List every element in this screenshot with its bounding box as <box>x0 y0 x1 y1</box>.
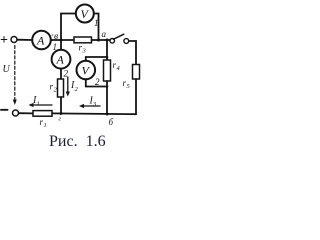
current arrow I2 <box>67 77 69 93</box>
resistor r2 <box>58 79 64 97</box>
wire V1 down to node a <box>94 14 99 41</box>
wire r2 to bottom rail <box>60 97 62 114</box>
svg-text:4: 4 <box>117 65 121 72</box>
label 2 (A2 subscript) <box>64 69 69 79</box>
bottom rail wire <box>52 112 136 115</box>
voltmeter V2 tap top <box>86 57 107 61</box>
resistor r1 <box>33 111 52 117</box>
junction dot node б <box>106 113 109 116</box>
label 1 (V1 subscript) <box>94 18 99 28</box>
node label a <box>102 29 107 39</box>
svg-text:A: A <box>56 53 65 67</box>
junction dot r4 branch <box>106 39 109 42</box>
wire r5 to bottom rail <box>135 79 137 114</box>
svg-text:V: V <box>81 7 90 21</box>
svg-text:A: A <box>36 34 45 48</box>
wire A2 to r2 <box>60 69 62 79</box>
svg-text:V: V <box>82 64 91 78</box>
svg-text:б: б <box>109 117 114 127</box>
svg-text:U: U <box>3 64 11 75</box>
wire minus terminal to r1 <box>19 112 33 114</box>
svg-text:Рис. 1.6: Рис. 1.6 <box>49 133 106 150</box>
terminal minus (minus sign) <box>1 109 8 111</box>
terminal + circle <box>11 37 17 43</box>
current arrow I1 <box>32 104 53 106</box>
svg-text:3: 3 <box>92 101 97 108</box>
wire A1 to r3 <box>51 39 74 41</box>
switch contact 2 <box>124 39 129 44</box>
ammeter A2 <box>60 40 62 50</box>
node label г <box>59 116 62 123</box>
r4 branch wire top <box>106 40 108 60</box>
voltage arrow U (dashed) <box>14 46 16 102</box>
svg-text:г: г <box>59 116 62 123</box>
current arrow I3 <box>82 105 100 107</box>
junction dot bottom of r2 branch <box>60 112 63 115</box>
svg-text:+: + <box>0 33 8 48</box>
voltmeter V1 <box>76 5 94 23</box>
terminal minus circle <box>13 110 19 116</box>
svg-text:1: 1 <box>37 101 40 108</box>
voltmeter V2 <box>77 61 96 80</box>
terminal + (plus sign) <box>0 33 8 48</box>
node в junction dot <box>60 39 63 42</box>
svg-text:a: a <box>102 29 107 39</box>
wire r3 to switch <box>92 39 111 41</box>
svg-text:3: 3 <box>82 48 87 55</box>
switch contact 1 <box>110 39 115 44</box>
label 1 (A1 subscript) <box>53 42 58 52</box>
switch blade <box>114 34 124 39</box>
svg-text:2: 2 <box>75 86 79 93</box>
node label в <box>51 32 59 42</box>
svg-text:1: 1 <box>44 122 47 129</box>
ammeter A1 <box>32 31 51 50</box>
resistor r4 <box>104 60 111 81</box>
node a junction dot <box>97 39 100 42</box>
voltmeter V2 tap bottom <box>86 79 107 86</box>
wire plus terminal to A1 <box>17 39 32 41</box>
node label б <box>109 117 114 127</box>
svg-text:2: 2 <box>95 77 100 87</box>
wire up to V1 <box>61 14 76 41</box>
r4 branch wire bottom <box>106 81 108 114</box>
svg-text:5: 5 <box>127 83 131 90</box>
label 2 (V2 subscript) <box>95 77 100 87</box>
resistor r5 <box>133 65 140 80</box>
wire switch to right branch <box>129 41 136 65</box>
resistor r3 <box>74 37 92 43</box>
svg-text:x: x <box>51 32 54 37</box>
